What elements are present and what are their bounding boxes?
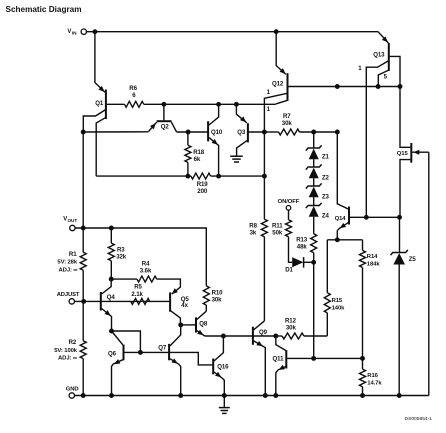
node row-Q13coll [398, 84, 403, 89]
wire Q11 base row right [314, 357, 363, 359]
wire ADJUST row [74, 300, 170, 302]
svg-text:R7: R7 [283, 113, 291, 120]
svg-text:R13: R13 [296, 237, 308, 244]
wire R12 lead [276, 335, 282, 337]
node Q2-R18 [186, 130, 191, 135]
transistor Q5 [169, 292, 171, 311]
node Q11-D1col [311, 356, 316, 361]
wire Q13 collector [390, 56, 400, 86]
wire GND rail [74, 395, 428, 397]
wire R19 row left [96, 175, 191, 177]
wire VOUT row [75, 228, 206, 286]
svg-text:3.6k: 3.6k [140, 268, 152, 275]
resistor R11 [286, 220, 292, 237]
wire Q6 base loop [112, 331, 141, 352]
svg-text:IN: IN [72, 30, 77, 35]
wire Q15 right rail [428, 152, 430, 395]
wire R4 lead [111, 278, 137, 280]
wire Z2-Z3 [313, 178, 315, 186]
node rail-R2 [81, 393, 86, 398]
wire Z4-R13 [313, 217, 315, 234]
wire R11 to D1 [289, 237, 293, 263]
wire D1 node down [313, 262, 315, 358]
resistor R16 [362, 358, 364, 369]
resistor R14 [360, 250, 366, 267]
transistor Q11 [285, 350, 287, 368]
node rail-Z5 [397, 393, 402, 398]
svg-text:Q14: Q14 [335, 216, 347, 222]
resistor R15 [324, 293, 330, 313]
svg-text:R14: R14 [367, 254, 378, 260]
transistor Q9 [252, 327, 254, 345]
svg-text:R15: R15 [332, 298, 343, 304]
svg-text:5V: 28k: 5V: 28k [57, 260, 77, 266]
resistor R1 [80, 252, 86, 270]
wire VIN rail [87, 31, 379, 33]
svg-text:R12: R12 [285, 317, 297, 324]
node row-Q14col [335, 84, 340, 89]
svg-text:R2: R2 [69, 339, 77, 346]
node rail-Q10 [216, 102, 221, 107]
ground bottom [219, 407, 230, 409]
svg-text:140k: 140k [332, 306, 346, 312]
svg-text:Q16: Q16 [217, 363, 229, 370]
node Q4em-Q6 [109, 329, 114, 334]
resistor R13 [311, 234, 317, 253]
resistor R7 [264, 131, 278, 133]
svg-text:GND: GND [66, 386, 79, 392]
wire R6 to rail [144, 103, 276, 105]
svg-text:R4: R4 [142, 260, 150, 267]
wire Q15-Z5 [399, 217, 401, 252]
resistor R19 [191, 173, 211, 179]
svg-text:ADJUST: ADJUST [57, 292, 80, 298]
node rail-Q3 [234, 102, 239, 107]
zener Z4 [306, 203, 322, 208]
node rail-Q6 [109, 393, 114, 398]
mosfet Q15 [410, 143, 412, 163]
wire gnd stub [223, 396, 225, 408]
svg-text:R5: R5 [134, 284, 142, 291]
node VOUT-col [81, 226, 86, 231]
svg-text:Q1: Q1 [95, 100, 104, 107]
resistor R2 [82, 301, 84, 340]
node Q6-Q7 base [138, 350, 143, 355]
svg-text:Q10: Q10 [211, 129, 223, 136]
svg-text:Z3: Z3 [322, 194, 330, 201]
svg-text:2.1k: 2.1k [131, 291, 143, 298]
wire Q1 base to R6 [107, 103, 125, 105]
wire Q7-Q16 base [170, 352, 212, 365]
svg-text:48k: 48k [297, 244, 308, 251]
zener Z2 [306, 164, 322, 169]
svg-text:R16: R16 [367, 373, 378, 379]
transistor Q16 [212, 359, 214, 375]
svg-text:V: V [67, 29, 71, 35]
transistor Q3 [247, 123, 249, 142]
svg-text:30k: 30k [286, 324, 297, 331]
wire Q1 collector2 [96, 117, 106, 176]
svg-text:R11: R11 [272, 222, 283, 229]
terminal ON/OFF [286, 206, 291, 211]
node ADJ-col [81, 299, 86, 304]
svg-text:Q4: Q4 [107, 294, 116, 301]
node rail-R16 [360, 393, 365, 398]
svg-text:Z2: Z2 [322, 175, 330, 182]
svg-text:Q9: Q9 [259, 329, 268, 336]
wire R14 top [362, 240, 364, 251]
svg-text:R19: R19 [197, 181, 209, 188]
wire Q5 emitter arrow [172, 288, 178, 294]
svg-text:ADJ: ∞: ADJ: ∞ [59, 268, 78, 274]
wire Z1-Z2 [313, 159, 315, 167]
wire Q14em row [327, 239, 362, 241]
svg-text:ADJ: ∞: ADJ: ∞ [58, 356, 77, 362]
wire Z5 down [398, 265, 400, 396]
node R7-Z1 [311, 130, 316, 135]
wire Q1 collector1 [83, 109, 106, 132]
wire Z3-Z4 [313, 197, 315, 205]
wire left col upper [82, 132, 84, 252]
svg-text:DS005854-1: DS005854-1 [405, 416, 433, 422]
svg-text:32k: 32k [116, 253, 127, 260]
svg-text:14.7k: 14.7k [367, 380, 382, 386]
svg-text:Schematic Diagram: Schematic Diagram [6, 5, 82, 14]
transistor Q1 [105, 90, 107, 120]
node row-Q13em [376, 84, 381, 89]
wire ON/OFF down [288, 210, 290, 220]
zener Z3 [306, 183, 322, 188]
svg-text:200: 200 [197, 188, 208, 195]
svg-text:Q3: Q3 [237, 129, 246, 136]
resistor R12 [282, 333, 304, 339]
wire Q2 emitter [83, 131, 148, 133]
node Q1-base-Vout-col [81, 130, 86, 135]
node rail-Q7 [178, 393, 183, 398]
transistor Q8 [195, 317, 197, 332]
node VOUT-R3 [109, 226, 114, 231]
node VIN-Q12 [274, 29, 279, 34]
transistor Q13 [388, 43, 390, 71]
svg-text:Q12: Q12 [272, 80, 284, 87]
wire Q13 emitter5 [378, 70, 388, 86]
svg-text:Q8: Q8 [199, 321, 208, 328]
wire Q8-Q9 base row [205, 335, 276, 337]
svg-text:30k: 30k [212, 296, 223, 303]
wire Q12c1 junction [262, 130, 267, 135]
wire Z1 top [313, 132, 315, 148]
svg-text:Q2: Q2 [161, 123, 170, 130]
transistor Q6 [123, 345, 125, 361]
svg-text:4x: 4x [181, 302, 188, 309]
node R7-Q14col [335, 130, 340, 135]
node Q10em-R19 [216, 174, 221, 179]
wire Q12 emitter drop [276, 32, 286, 75]
wire Q13coll down [400, 87, 410, 148]
transistor Q10 [207, 121, 209, 141]
transistor Q7 [168, 344, 170, 360]
svg-text:ON/OFF: ON/OFF [278, 199, 300, 205]
svg-text:Z5: Z5 [409, 256, 417, 263]
svg-text:Q6: Q6 [108, 350, 117, 357]
resistor R6 [125, 101, 144, 107]
svg-text:5V: 100k: 5V: 100k [54, 348, 78, 354]
node rail-Q9 [263, 393, 268, 398]
wire Q1 emitter drop [95, 32, 105, 92]
node R6-Q2 [161, 102, 166, 107]
ground under Q3 [230, 155, 243, 157]
node row-R14-R16 [360, 356, 365, 361]
svg-text:R1: R1 [69, 251, 77, 258]
svg-text:Z4: Z4 [322, 212, 330, 219]
svg-text:3k: 3k [250, 229, 257, 236]
svg-text:184k: 184k [367, 262, 381, 268]
node D1-R13 [311, 260, 316, 265]
wire Q2 collector to Q10 [177, 131, 209, 133]
node R18-R19 [185, 174, 190, 179]
resistor R3 [110, 228, 112, 243]
node Q14base-Q15 [397, 215, 402, 220]
wire Q12 base diag [276, 101, 287, 104]
transistor Q12 [287, 73, 289, 101]
transistor Q14 [348, 207, 350, 225]
node rail-Q11 [273, 393, 278, 398]
wire VIN to Q13 [378, 32, 388, 43]
resistor R5 [131, 298, 150, 304]
node Q14base-Q13 [364, 215, 369, 220]
svg-text:Q15: Q15 [397, 151, 409, 157]
svg-text:R6: R6 [129, 85, 137, 92]
transistor Q2 [157, 120, 172, 122]
node Q16coll-row [221, 334, 226, 339]
resistor R4 [137, 276, 157, 282]
transistor Q4 [100, 292, 102, 311]
wire Q13 base [366, 61, 388, 217]
svg-text:OUT: OUT [68, 218, 78, 223]
zener Z5 [391, 250, 408, 255]
svg-text:30k: 30k [282, 120, 293, 127]
node VIN-Q1 [92, 29, 97, 34]
resistor R10 [203, 286, 209, 305]
svg-text:Q13: Q13 [373, 52, 385, 59]
node Q5-Q7-Q8 [178, 322, 183, 327]
svg-text:Z1: Z1 [322, 153, 330, 160]
svg-text:Q11: Q11 [273, 355, 285, 362]
node Q14 emitter [335, 237, 340, 242]
node R3-R4-Q4 [109, 277, 114, 282]
node gnd-sym [222, 393, 227, 398]
zener Z1 [306, 145, 322, 150]
resistor R18 [187, 132, 189, 145]
wire Q12 collector row [289, 86, 401, 88]
svg-text:Q7: Q7 [158, 344, 167, 351]
wire Q12 collector1 [264, 93, 286, 132]
wire R15 top [326, 240, 328, 293]
resistor R8 [261, 219, 267, 237]
node R12 left [273, 334, 278, 339]
svg-text:50k: 50k [272, 229, 283, 236]
svg-text:D1: D1 [285, 267, 293, 274]
wire R19row-R8 [262, 174, 267, 179]
svg-text:R8: R8 [249, 222, 257, 229]
diode D1 [292, 257, 303, 267]
svg-text:6k: 6k [194, 156, 201, 163]
